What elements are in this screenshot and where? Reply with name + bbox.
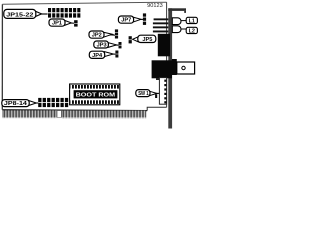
LED lamp L2 dome	[172, 26, 181, 33]
label JP1	[49, 19, 71, 27]
svg-text:L1: L1	[189, 19, 196, 25]
metal bracket top foot lip	[184, 11, 186, 13]
LED lead wire 2	[153, 22, 168, 24]
BNC barrel center hole	[182, 66, 185, 69]
small component left of SW1	[155, 94, 157, 98]
label JP8-14	[2, 100, 37, 108]
jumper JP2 pins	[115, 29, 118, 38]
wire JP8-14 pointer	[35, 102, 39, 104]
label JP3	[94, 41, 117, 49]
BNC barrel	[177, 62, 195, 74]
svg-text:JP8-14: JP8-14	[4, 101, 27, 107]
L1 label	[186, 17, 197, 24]
label JP5 (arrow pointing left)	[133, 35, 156, 43]
wire JP3 pointer	[114, 44, 119, 46]
edge connector section 1	[2, 110, 57, 118]
BOOT ROM top pin row	[71, 85, 119, 89]
L1 pointer line	[181, 20, 187, 22]
card PCB right edge	[166, 2, 168, 107]
jumper JP3 pins	[119, 42, 122, 48]
svg-text:JP7: JP7	[121, 18, 131, 24]
DIP switch SW1 body	[159, 78, 166, 105]
metal bracket vertical bar	[168, 8, 172, 128]
svg-text:JP5: JP5	[142, 37, 152, 43]
label SW 1	[136, 90, 157, 98]
svg-text:L2: L2	[189, 29, 196, 35]
label JP2	[89, 31, 112, 39]
BOOT ROM center band with text	[74, 90, 118, 98]
wire SW1 pointer	[155, 92, 160, 94]
svg-text:90123: 90123	[147, 3, 163, 9]
svg-text:JP2: JP2	[92, 33, 102, 39]
svg-text:BOOT ROM: BOOT ROM	[76, 93, 116, 99]
wire JP15-22 pointer	[39, 13, 48, 15]
jumper JP5 pins	[129, 36, 132, 43]
wire JP2 pointer	[110, 34, 115, 36]
wire JP1 pointer	[69, 22, 74, 24]
BNC small bottom strip	[156, 78, 166, 80]
BNC barrel flange (black, through bracket)	[172, 59, 177, 75]
LED lead wire 3	[153, 26, 168, 28]
LED lead wire 1	[154, 18, 169, 20]
BOOT ROM socket outline	[70, 84, 120, 105]
BOOT ROM bottom pin row	[71, 100, 119, 104]
filter transformer block (black)	[158, 34, 170, 57]
edge connector section 2	[62, 111, 146, 119]
DIP switch SW1 actuators	[164, 80, 166, 104]
jumper block JP15-22 pins	[48, 8, 80, 18]
svg-text:SW 1: SW 1	[138, 91, 149, 97]
metal bracket top foot	[168, 8, 186, 11]
L2 label	[186, 27, 197, 34]
card PCB left edge	[1, 4, 3, 109]
label JP4	[89, 51, 113, 59]
jumper JP1 pins	[74, 20, 78, 23]
svg-text:JP1: JP1	[52, 21, 62, 27]
BNC connector body (black)	[152, 60, 172, 78]
label JP7	[118, 16, 141, 24]
card PCB top edge	[2, 2, 166, 4]
L2 pointer line	[181, 28, 187, 30]
card PCB bottom edge (left of step)	[2, 109, 147, 112]
wire JP4 pointer	[111, 53, 116, 55]
card PCB bottom step notch	[147, 107, 166, 110]
LED lamp L1 dome	[172, 18, 181, 25]
svg-text:JP15-22: JP15-22	[6, 12, 33, 18]
edge connector key tab	[57, 110, 62, 117]
LED lead wire 4	[153, 31, 168, 33]
svg-text:JP4: JP4	[92, 53, 102, 59]
jumper block JP8-14 pins	[38, 98, 68, 107]
label JP15-22	[4, 9, 42, 18]
wire JP7 pointer	[139, 18, 144, 20]
svg-text:JP3: JP3	[97, 43, 107, 49]
edge connector bottom fade	[2, 117, 147, 118]
jumper JP4 pins	[115, 51, 118, 58]
jumper JP7 pins	[143, 13, 146, 25]
